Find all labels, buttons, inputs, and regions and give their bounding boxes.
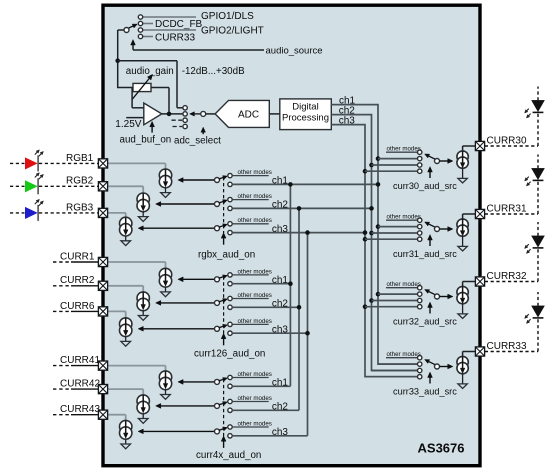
ground arrow RGB3 bbox=[125, 236, 127, 241]
LED light rays CURR31 bbox=[529, 182, 531, 184]
wire ch2 bus bbox=[331, 115, 417, 371]
switch wiper group1 row3 bbox=[219, 326, 224, 328]
wire other modes stub group0 row1 bbox=[232, 175, 269, 177]
contact ch group0 row2 bbox=[228, 206, 232, 210]
contacts CURR31_aud_src switch bbox=[418, 218, 422, 222]
wire left ch1 bus bbox=[289, 184, 291, 386]
LED external CURR31 bbox=[533, 179, 544, 181]
chip body AS3676 bbox=[103, 5, 480, 466]
svg-text:other modes: other modes bbox=[238, 169, 272, 176]
contact other-modes group0 row2 bbox=[228, 197, 232, 201]
pin CURR33 bbox=[475, 347, 484, 356]
wire other modes stub CURR32 bbox=[386, 287, 418, 289]
switch wiper group2 row1 bbox=[219, 379, 224, 381]
ground arrow CURR31 bbox=[462, 237, 464, 247]
select arrow to current source CURR42 bbox=[161, 405, 215, 407]
svg-text:ch1: ch1 bbox=[272, 176, 289, 187]
wire ch3 bus bbox=[331, 125, 417, 377]
wire other modes stub group2 row2 bbox=[232, 401, 269, 403]
svg-text:audio_gain: audio_gain bbox=[126, 66, 174, 77]
LED external CURR33 bbox=[533, 317, 544, 319]
wire ch1 tap CURR32 bbox=[378, 293, 418, 295]
wire LED to pin RGB3 (dashed) bbox=[39, 212, 98, 214]
svg-text:other modes: other modes bbox=[387, 351, 421, 358]
control dashed line group1 bbox=[223, 276, 225, 334]
control arrow CURR31_aud_src bbox=[429, 240, 431, 246]
control arrow CURR30_aud_src bbox=[429, 172, 431, 178]
wire ch2 tap CURR33 bbox=[372, 370, 418, 372]
svg-text:other modes: other modes bbox=[238, 217, 272, 224]
switch wiper group0 row2 bbox=[219, 201, 224, 203]
select arrow to current source RGB3 bbox=[143, 227, 214, 229]
audio mux contact 3 bbox=[138, 28, 142, 32]
svg-text:curr30_aud_src: curr30_aud_src bbox=[393, 181, 457, 191]
op-amp audio buffer bbox=[144, 103, 162, 125]
ground arrow CURR32 bbox=[462, 304, 464, 314]
wire current source to pin CURR30 bbox=[462, 146, 464, 151]
switch pole group0 row3 bbox=[215, 226, 220, 231]
switch pole group1 row2 bbox=[215, 300, 220, 305]
switch pole group2 row1 bbox=[215, 379, 220, 384]
switch pole group2 row3 bbox=[215, 429, 220, 434]
adc_select contact 1 bbox=[183, 106, 187, 110]
adc_select dashed input 3 bbox=[172, 119, 183, 121]
control arrow group0 bbox=[223, 238, 225, 245]
select arrow to current source RGB1 bbox=[183, 179, 214, 181]
wire other modes stub group1 row1 bbox=[232, 274, 269, 276]
contact other-modes group0 row3 bbox=[228, 222, 232, 226]
wire ch3 line group1 bbox=[232, 332, 307, 334]
wire external stub CURR6 (dashed) bbox=[53, 310, 71, 312]
svg-text:other modes: other modes bbox=[387, 281, 421, 288]
svg-text:Processing: Processing bbox=[282, 113, 329, 124]
control arrow CURR32_aud_src bbox=[429, 308, 431, 314]
contact ch group1 row3 bbox=[228, 331, 232, 335]
current source CURR43 bbox=[120, 420, 132, 432]
Digital Processing block bbox=[280, 99, 332, 130]
svg-text:CURR30: CURR30 bbox=[487, 136, 527, 147]
svg-text:DCDC_FB: DCDC_FB bbox=[155, 19, 203, 30]
LED light rays CURR33 bbox=[529, 319, 531, 321]
ground arrow CURR1 bbox=[165, 287, 167, 292]
svg-text:other modes: other modes bbox=[387, 214, 421, 221]
wire external stub CURR2 (dashed) bbox=[53, 285, 71, 287]
svg-text:other modes: other modes bbox=[238, 420, 272, 427]
svg-text:adc_select: adc_select bbox=[174, 136, 221, 147]
wire ch2 line group0 bbox=[232, 207, 371, 209]
audio mux pole bbox=[124, 28, 129, 33]
wire pin CURR33 to external LED (dashed) bbox=[485, 351, 538, 353]
current source RGB1 bbox=[159, 169, 171, 181]
LED RGB2 external bbox=[10, 185, 25, 187]
wire ch1 line group0 bbox=[232, 183, 378, 185]
control dashed line group2 bbox=[223, 379, 225, 437]
wire pin CURR6 to current source bbox=[108, 310, 126, 312]
wire ch1 line group1 bbox=[232, 283, 290, 285]
wire audio_source bbox=[133, 49, 264, 51]
svg-text:other modes: other modes bbox=[238, 268, 272, 275]
wire ch1 line group2 bbox=[232, 385, 290, 387]
svg-text:-12dB...+30dB: -12dB...+30dB bbox=[182, 66, 245, 77]
contact ch group2 row2 bbox=[228, 408, 232, 412]
pin CURR41 bbox=[98, 361, 107, 370]
wire DCDC_FB contact stub bbox=[143, 23, 154, 25]
svg-text:CURR33: CURR33 bbox=[155, 33, 195, 44]
contact other-modes group1 row3 bbox=[228, 322, 232, 326]
LED RGB3 light rays bbox=[35, 202, 37, 204]
pin RGB3 bbox=[98, 208, 107, 217]
wire junction to adc bypass bbox=[118, 60, 177, 62]
contact ch group0 row1 bbox=[228, 182, 232, 186]
pole CURR33_aud_src bbox=[435, 364, 440, 369]
current source RGB2 bbox=[137, 193, 149, 205]
svg-text:CURR43: CURR43 bbox=[60, 404, 100, 415]
switch pole group1 row1 bbox=[215, 277, 220, 282]
pole CURR30_aud_src bbox=[435, 159, 440, 164]
svg-text:aud_buf_on: aud_buf_on bbox=[120, 135, 172, 146]
current source CURR2 bbox=[137, 292, 149, 304]
svg-text:Digital: Digital bbox=[292, 102, 318, 113]
wire ch1 tap CURR31 bbox=[378, 226, 418, 228]
pin CURR32 bbox=[475, 277, 484, 286]
pin RGB1 bbox=[98, 159, 107, 168]
wire pin CURR2 to current source bbox=[108, 285, 144, 287]
select arrow to current source CURR2 bbox=[161, 302, 215, 304]
wire other modes stub group2 row3 bbox=[232, 426, 269, 428]
wire pin RGB1 to current source bbox=[108, 162, 166, 164]
wire ch2 line group2 bbox=[232, 409, 299, 411]
current source CURR31 bbox=[457, 219, 468, 230]
svg-text:CURR32: CURR32 bbox=[487, 271, 527, 282]
wire ch2 tap CURR31 bbox=[372, 232, 418, 234]
contacts CURR30_aud_src switch bbox=[418, 150, 422, 154]
node junctions on channel buses bbox=[376, 156, 381, 161]
svg-text:curr33_aud_src: curr33_aud_src bbox=[393, 387, 457, 397]
svg-text:CURR41: CURR41 bbox=[60, 355, 100, 366]
svg-text:other modes: other modes bbox=[238, 292, 272, 299]
svg-text:curr126_aud_on: curr126_aud_on bbox=[194, 349, 265, 360]
contact other-modes group1 row2 bbox=[228, 296, 232, 300]
wire pole to ADC bbox=[206, 113, 215, 115]
wire pin RGB3 to current source bbox=[108, 212, 126, 214]
wire 1.25V reference input bbox=[126, 117, 144, 119]
audio mux wiper arrow bbox=[128, 26, 133, 28]
svg-text:rgbx_aud_on: rgbx_aud_on bbox=[198, 250, 255, 261]
wire external stub CURR41 (dashed) bbox=[53, 365, 71, 367]
audio mux contact 1 bbox=[138, 15, 142, 19]
pin CURR6 bbox=[98, 307, 107, 316]
wire ch2 tap CURR32 bbox=[372, 300, 418, 302]
arrow pole to current source CURR32 bbox=[440, 296, 448, 298]
wire current source to pin CURR31 bbox=[462, 214, 464, 219]
audio mux contact 2 bbox=[138, 21, 142, 25]
switch wiper group0 row1 bbox=[219, 177, 224, 179]
adc_select contact 3 bbox=[183, 118, 187, 122]
svg-text:ch3: ch3 bbox=[272, 324, 289, 335]
svg-text:RGB3: RGB3 bbox=[66, 202, 94, 213]
adc_select contact 4 bbox=[183, 124, 187, 128]
wiper arrow CURR30_aud_src bbox=[429, 156, 435, 159]
aud_buf_on control arrow bbox=[151, 127, 153, 133]
svg-text:CURR33: CURR33 bbox=[487, 341, 527, 352]
svg-text:1.25V: 1.25V bbox=[115, 119, 141, 130]
wire other modes stub group2 row1 bbox=[232, 377, 269, 379]
wire junction to feedback resistor bbox=[118, 87, 133, 89]
switch wiper group1 row2 bbox=[219, 300, 224, 302]
wire pin RGB2 to current source bbox=[108, 185, 144, 187]
pin CURR42 bbox=[98, 385, 107, 394]
svg-text:AS3676: AS3676 bbox=[418, 441, 465, 456]
svg-text:ch3: ch3 bbox=[272, 224, 289, 235]
svg-text:CURR31: CURR31 bbox=[487, 204, 527, 215]
svg-text:other modes: other modes bbox=[238, 395, 272, 402]
wire other modes stub group1 row2 bbox=[232, 298, 269, 300]
wire pin CURR31 to external LED (dashed) bbox=[485, 213, 538, 215]
select arrow to current source CURR43 bbox=[143, 430, 214, 432]
wire LED to pin RGB1 (dashed) bbox=[39, 162, 98, 164]
current source CURR33 bbox=[457, 356, 468, 367]
svg-text:CURR6: CURR6 bbox=[60, 301, 95, 312]
LED external CURR30 bbox=[533, 111, 544, 113]
ground arrow RGB1 bbox=[165, 188, 167, 193]
switch wiper group0 row3 bbox=[219, 226, 224, 228]
wire other modes stub group1 row3 bbox=[232, 323, 269, 325]
wire pin CURR32 to external LED (dashed) bbox=[485, 281, 538, 283]
select arrow to current source CURR1 bbox=[183, 278, 214, 280]
wire current source to pin CURR32 bbox=[462, 282, 464, 287]
svg-text:ch1: ch1 bbox=[272, 378, 289, 389]
wire other modes stub group0 row2 bbox=[232, 199, 269, 201]
wire ch1 tap CURR33 bbox=[378, 363, 418, 365]
ground arrow CURR6 bbox=[125, 337, 127, 342]
wire GPIO2 contact stub bbox=[143, 29, 197, 31]
svg-text:ADC: ADC bbox=[238, 110, 259, 121]
current source CURR32 bbox=[457, 286, 468, 297]
wire pin CURR41 to current source bbox=[108, 365, 166, 367]
LED external CURR32 bbox=[533, 247, 544, 249]
adc_select wiper arrow bbox=[194, 113, 200, 115]
variable resistor audio_gain bbox=[133, 83, 151, 91]
pin CURR2 bbox=[98, 281, 107, 290]
svg-text:RGB2: RGB2 bbox=[66, 176, 94, 187]
select arrow to current source CURR41 bbox=[183, 381, 214, 383]
ground arrow CURR2 bbox=[142, 311, 144, 316]
wire ch3 tap CURR33 bbox=[365, 376, 418, 378]
contact ch group1 row2 bbox=[228, 305, 232, 309]
wire ch3 line group0 bbox=[232, 232, 365, 234]
LED RGB1 light rays bbox=[35, 152, 37, 154]
svg-text:GPIO1/DLS: GPIO1/DLS bbox=[201, 11, 254, 22]
LED RGB1 external bbox=[10, 162, 25, 164]
contact ch group0 row3 bbox=[228, 230, 232, 234]
svg-text:curr32_aud_src: curr32_aud_src bbox=[393, 317, 457, 327]
switch wiper group1 row1 bbox=[219, 277, 224, 279]
current source RGB3 bbox=[120, 217, 132, 229]
svg-text:ch1: ch1 bbox=[272, 275, 289, 286]
arrow pole to current source CURR30 bbox=[440, 160, 448, 162]
wire ch1 tap CURR30 bbox=[378, 158, 418, 160]
switch wiper group2 row3 bbox=[219, 429, 224, 431]
pin CURR30 bbox=[475, 141, 484, 150]
audio_gain adjust arrow bbox=[132, 78, 149, 99]
contact other-modes group2 row3 bbox=[228, 425, 232, 429]
ground arrow RGB2 bbox=[142, 212, 144, 217]
ground arrow CURR30 bbox=[462, 169, 464, 179]
wire pin CURR43 to current source bbox=[108, 414, 126, 416]
pin CURR31 bbox=[475, 209, 484, 218]
wiper arrow CURR33_aud_src bbox=[429, 362, 435, 365]
contact ch group1 row1 bbox=[228, 282, 232, 286]
svg-text:other modes: other modes bbox=[238, 193, 272, 200]
wire other modes stub CURR30 bbox=[386, 151, 418, 153]
adc_select control arrow bbox=[202, 132, 204, 134]
LED light rays CURR30 bbox=[529, 114, 531, 116]
control arrow CURR33_aud_src bbox=[429, 378, 431, 384]
svg-text:ch2: ch2 bbox=[272, 402, 289, 413]
wire CURR33 contact stub bbox=[143, 36, 154, 38]
current source CURR1 bbox=[159, 268, 171, 280]
wiper arrow CURR31_aud_src bbox=[429, 224, 435, 227]
adc_select pole bbox=[201, 111, 206, 116]
control arrow group1 bbox=[223, 339, 225, 346]
wire left ch3 bus bbox=[307, 233, 309, 436]
contacts CURR33_aud_src switch bbox=[418, 356, 422, 360]
svg-text:other modes: other modes bbox=[238, 318, 272, 325]
wire ch3 tap CURR31 bbox=[365, 238, 418, 240]
contact other-modes group2 row2 bbox=[228, 399, 232, 403]
wire ch3 line group2 bbox=[232, 435, 307, 437]
adc_select dashed input 4 bbox=[173, 126, 183, 128]
wire external stub CURR43 (dashed) bbox=[53, 414, 71, 416]
control arrow group2 bbox=[223, 441, 225, 448]
wire resistor to op-amp output bbox=[151, 87, 169, 89]
audio_source select arrow bbox=[132, 45, 134, 50]
wire ADC to Digital Processing bbox=[269, 113, 280, 115]
pin RGB2 bbox=[98, 182, 107, 191]
svg-text:CURR1: CURR1 bbox=[60, 251, 95, 262]
contact other-modes group2 row1 bbox=[228, 375, 232, 379]
svg-text:curr4x_aud_on: curr4x_aud_on bbox=[196, 450, 261, 461]
switch pole group0 row1 bbox=[215, 178, 220, 183]
wire audio mux pole to amplifier bbox=[118, 29, 124, 31]
ADC block bbox=[215, 100, 269, 127]
LED light rays CURR32 bbox=[529, 249, 531, 251]
svg-text:ch2: ch2 bbox=[272, 299, 289, 310]
contact other-modes group0 row1 bbox=[228, 173, 232, 177]
wire current source to pin CURR33 bbox=[462, 352, 464, 357]
audio mux contact 4 bbox=[138, 34, 142, 38]
wire other modes stub group0 row3 bbox=[232, 223, 269, 225]
svg-text:audio_source: audio_source bbox=[266, 46, 323, 57]
select arrow to current source CURR6 bbox=[143, 328, 214, 330]
arrow pole to current source CURR31 bbox=[440, 228, 448, 230]
wire pin CURR1 to current source bbox=[108, 261, 166, 263]
wire other modes stub CURR33 bbox=[386, 357, 418, 359]
wire external stub CURR1 (dashed) bbox=[53, 261, 71, 263]
switch pole group0 row2 bbox=[215, 202, 220, 207]
svg-text:other modes: other modes bbox=[387, 146, 421, 153]
svg-text:ch3: ch3 bbox=[272, 427, 289, 438]
current source CURR30 bbox=[457, 151, 468, 162]
svg-text:curr31_aud_src: curr31_aud_src bbox=[393, 249, 457, 259]
wire inverting input bbox=[131, 88, 133, 108]
svg-text:CURR42: CURR42 bbox=[60, 379, 100, 390]
wire ch2 tap CURR30 bbox=[372, 164, 418, 166]
wire op-amp output bbox=[162, 113, 183, 115]
svg-text:GPIO2/LIGHT: GPIO2/LIGHT bbox=[201, 26, 264, 37]
wire external stub CURR42 (dashed) bbox=[53, 388, 71, 390]
arrow pole to current source CURR33 bbox=[440, 366, 448, 368]
LED RGB2 light rays bbox=[35, 175, 37, 177]
select arrow to current source RGB2 bbox=[161, 203, 215, 205]
ground arrow CURR43 bbox=[125, 439, 127, 444]
wire ch1 bus bbox=[331, 105, 417, 365]
pin CURR1 bbox=[98, 257, 107, 266]
svg-text:other modes: other modes bbox=[238, 371, 272, 378]
ground arrow CURR41 bbox=[165, 390, 167, 395]
wiper arrow CURR32_aud_src bbox=[429, 292, 435, 295]
LED RGB3 external bbox=[10, 212, 25, 214]
current source CURR6 bbox=[120, 318, 132, 330]
node audio input junction bbox=[115, 58, 120, 63]
contact ch group2 row1 bbox=[228, 384, 232, 388]
pole CURR31_aud_src bbox=[435, 227, 440, 232]
wire LED to pin RGB2 (dashed) bbox=[39, 185, 98, 187]
adc_select contact 2 bbox=[183, 112, 187, 116]
pole CURR32_aud_src bbox=[435, 294, 440, 299]
node op-amp output bbox=[167, 112, 172, 117]
current source CURR41 bbox=[159, 371, 171, 383]
wire other modes stub CURR31 bbox=[386, 219, 418, 221]
wire ch2 line group1 bbox=[232, 306, 299, 308]
wire left ch2 bus bbox=[298, 208, 300, 410]
wire pin CURR42 to current source bbox=[108, 388, 144, 390]
wire ch3 tap CURR30 bbox=[365, 170, 418, 172]
switch pole group1 row3 bbox=[215, 326, 220, 331]
wire ch3 tap CURR32 bbox=[365, 306, 418, 308]
control dashed line group0 bbox=[223, 177, 225, 233]
ground arrow CURR42 bbox=[142, 414, 144, 419]
svg-text:RGB1: RGB1 bbox=[66, 153, 94, 164]
contact ch group2 row3 bbox=[228, 434, 232, 438]
contact other-modes group1 row1 bbox=[228, 273, 232, 277]
wire GPIO1 contact stub bbox=[143, 16, 197, 18]
ground arrow CURR33 bbox=[462, 374, 464, 384]
svg-text:ch2: ch2 bbox=[272, 200, 289, 211]
pin CURR43 bbox=[98, 410, 107, 419]
switch pole group2 row2 bbox=[215, 403, 220, 408]
current source CURR42 bbox=[137, 395, 149, 407]
svg-text:CURR2: CURR2 bbox=[60, 275, 95, 286]
switch wiper group2 row2 bbox=[219, 403, 224, 405]
wire pin CURR30 to external LED (dashed) bbox=[485, 145, 538, 147]
contacts CURR32_aud_src switch bbox=[418, 286, 422, 290]
